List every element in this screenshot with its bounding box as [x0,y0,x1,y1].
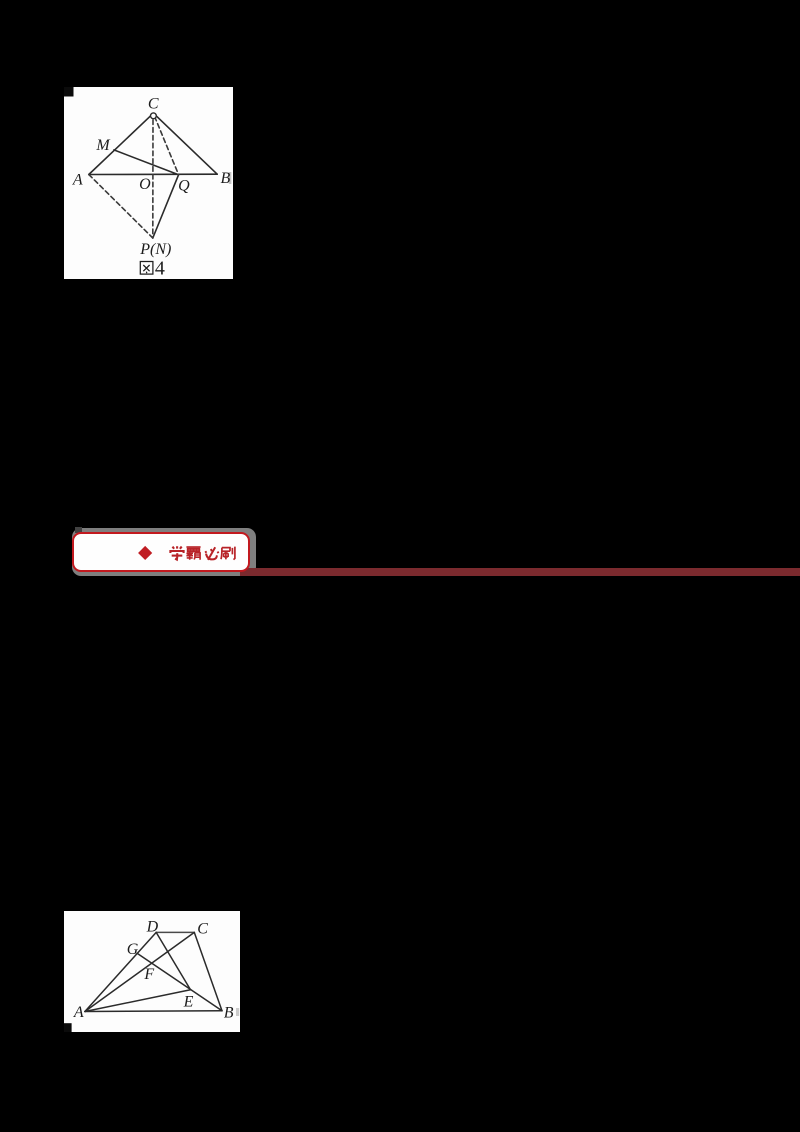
glyph 学 [170,546,183,559]
wire: diagonal AC [85,932,194,1011]
badge panel 学霸必刷 [72,532,250,572]
svg-text:Q: Q [178,177,190,194]
wire: base AB [85,1010,222,1013]
angle marker circle at C [151,113,157,119]
badge diamond bullet [138,546,153,561]
svg-text:F: F [143,966,154,983]
svg-text:A: A [72,171,83,188]
svg-text:G: G [127,941,139,958]
svg-text:A: A [73,1004,84,1021]
wire: segment GB through F and E [138,954,222,1011]
maroon rule extending right [240,568,800,576]
badge shadow [72,528,256,576]
svg-text:B: B [224,1005,234,1022]
wire: side CB [194,932,222,1010]
svg-text:B: B [221,170,231,187]
white panel background [64,911,240,1032]
svg-text:4: 4 [155,258,165,279]
svg-text:P(N): P(N) [139,241,171,258]
svg-text:D: D [146,919,159,936]
wire: segment AE [85,990,191,1012]
svg-text:O: O [139,176,151,193]
wire: side AD through G [85,932,156,1011]
wire: segment MQ [114,150,179,175]
white panel background [64,87,233,279]
glyph 必 [205,547,218,560]
wire: dashed CQ [155,117,179,175]
dark scan notch top-left corner [64,87,74,97]
wire: segment QP [153,175,179,238]
caption 图4 [140,262,153,275]
scan tick right of B [229,172,232,184]
figure: trapezoid diagram ABCD (scanned white panel) [64,911,240,1032]
wire: base AB [89,173,217,175]
wire: dashed CP through O [152,120,154,238]
glyph 刷 [221,547,235,560]
wire: segment DE [156,932,190,989]
badge shadow dark notch [75,527,82,533]
svg-text:E: E [183,993,194,1010]
figure: triangle diagram 图4 (scanned white panel) [64,87,233,279]
scan tick right of B [236,1008,239,1016]
svg-text:C: C [148,96,159,113]
svg-text:C: C [197,920,208,937]
dark scan notch bottom-left corner [64,1023,72,1032]
wire: top DC [156,931,194,933]
wire: side AC [89,113,154,174]
svg-text:M: M [95,137,111,154]
badge title glyphs 学霸必刷 [168,544,238,564]
glyph 霸 [186,547,200,560]
wire: dashed AP [89,175,153,239]
wire: side CB [153,113,217,174]
